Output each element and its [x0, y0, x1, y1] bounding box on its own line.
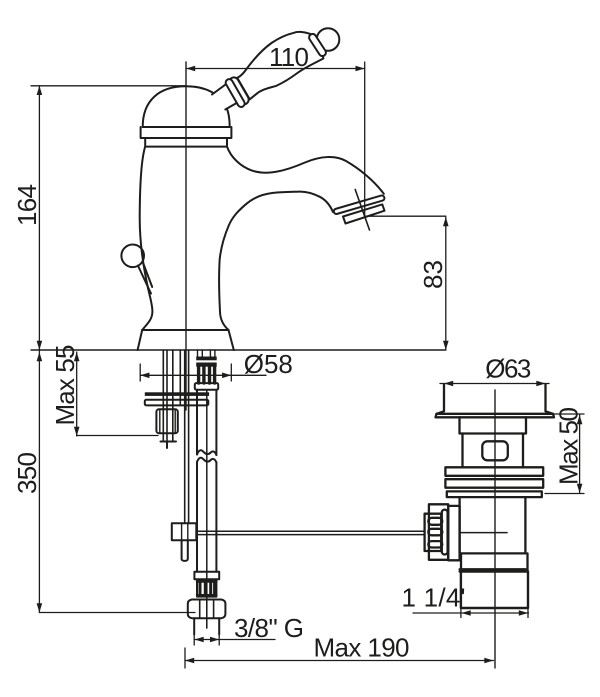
arrow Max55 up	[74, 352, 80, 361]
drain upper body	[463, 434, 524, 468]
ring 1	[445, 467, 543, 476]
dim 83 vertical	[445, 217, 447, 350]
dome cap	[143, 86, 230, 127]
drain pull knob circle	[121, 245, 144, 268]
dim Max190 left extension	[184, 648, 186, 668]
dim 164 top extension	[31, 85, 186, 87]
arrow O63 right	[536, 381, 545, 387]
arrow 350 down	[37, 603, 43, 612]
handle ball knob	[317, 28, 340, 51]
dome plinth	[141, 127, 232, 138]
dim 3/8 line	[194, 639, 275, 641]
thread tail hatch	[199, 367, 215, 383]
drain neck	[460, 417, 527, 433]
countertop plane line	[31, 349, 446, 351]
base skirt shoulder	[142, 329, 228, 331]
dim 3/8 extensions	[193, 630, 195, 645]
flex hose upper	[197, 390, 216, 455]
handle tip ridge	[308, 33, 327, 58]
washer thick bar	[145, 392, 209, 396]
arrow 164 down	[37, 341, 43, 350]
aerator ring band (capsule)	[333, 195, 385, 215]
thread collar	[195, 383, 218, 390]
svg-text:Max 50: Max 50	[553, 407, 583, 485]
arrow O58 right	[222, 373, 231, 379]
arrow 83 down	[443, 341, 449, 350]
faucet shank centerline lower	[206, 599, 208, 628]
dim 164/350 vertical line	[38, 86, 40, 613]
pop-up rod through nut to clamp	[182, 523, 188, 540]
dome base line	[143, 126, 230, 128]
knurl capsule tall	[442, 510, 448, 555]
arrow Max55 down	[74, 427, 80, 436]
dim 1 1/4 line	[413, 612, 529, 614]
arrow 164 up	[37, 86, 43, 95]
arrow Max50 up	[577, 415, 583, 424]
drain flange lip	[436, 414, 555, 418]
aerator tip slab	[343, 204, 385, 223]
hex nut 3/8	[188, 600, 226, 619]
arrow O58 left	[140, 373, 149, 379]
knurled nut plate	[448, 506, 459, 560]
body right contour + spout underside (one sweep)	[219, 192, 333, 330]
dim O63 line	[440, 383, 549, 385]
thread tail top lines	[198, 350, 215, 359]
arrow 110 right	[356, 66, 365, 72]
hose ribbed section	[197, 580, 216, 597]
hose break zigzag	[197, 450, 216, 462]
svg-text:Ø63: Ø63	[485, 354, 531, 384]
dim Max190 line	[185, 660, 494, 662]
dim Max55 vertical	[76, 352, 78, 436]
flex hose lower	[197, 462, 216, 572]
svg-text:83: 83	[418, 260, 448, 289]
spout outlet horizontal to 83	[365, 215, 446, 217]
arrow 1 1/4 right	[519, 610, 528, 616]
overflow window	[482, 441, 508, 460]
3/8 tube below nut	[194, 618, 219, 634]
centerline faucet	[185, 62, 187, 410]
drain mid joint	[460, 553, 528, 571]
dim O58 extensions	[139, 364, 141, 381]
svg-text:Max 55: Max 55	[50, 345, 80, 426]
svg-text:Ø58: Ø58	[244, 349, 293, 379]
base skirt sides	[138, 330, 234, 350]
rod tip below clamp	[182, 540, 188, 561]
thread tail dark bands	[196, 357, 217, 361]
left threaded stud	[163, 350, 173, 442]
knurl bumps	[428, 518, 442, 525]
arrow O63 left	[444, 381, 453, 387]
drain flange sides	[437, 384, 554, 414]
arrow 83 up	[443, 217, 449, 226]
svg-text:3/8" G: 3/8" G	[234, 613, 304, 643]
arrow 350 up	[37, 352, 43, 361]
dim 110 right extension vertical	[364, 62, 366, 216]
dim 1 1/4 extensions	[460, 608, 462, 618]
mounting nut	[156, 409, 177, 433]
handle stem	[212, 81, 245, 110]
dim Max50 bottom extension	[545, 493, 584, 495]
pop-up rod upper	[180, 350, 188, 523]
arrow Max190 left	[185, 658, 194, 664]
spout axis tick	[355, 190, 369, 231]
drain pull stem	[138, 263, 152, 294]
spout upper contour	[227, 147, 384, 194]
ring 2	[445, 479, 543, 488]
dim 350 bottom extension	[39, 612, 195, 614]
svg-text:110: 110	[269, 42, 309, 72]
arrow Max190 right	[484, 658, 493, 664]
clamp block	[172, 523, 197, 540]
arrow 1 1/4 left	[462, 610, 471, 616]
handle collar rings	[224, 75, 250, 108]
drain bottom tube	[460, 572, 528, 609]
dim Max50 vertical	[579, 415, 581, 493]
dim 110 line	[186, 68, 365, 70]
washer plate	[145, 400, 209, 406]
handle grip	[237, 32, 323, 99]
dim Max55 bottom extension	[77, 435, 158, 437]
drain centerline	[494, 390, 496, 668]
rod line inside tube	[460, 532, 507, 534]
hose end collar	[194, 572, 219, 580]
svg-text:164: 164	[12, 184, 42, 226]
knurled nut inner	[425, 514, 442, 551]
drain lower tube	[460, 497, 526, 553]
arrow 3/8 left	[195, 637, 204, 643]
body left contour	[140, 147, 153, 330]
horizontal link rod	[196, 531, 423, 534]
knurled nut body	[429, 504, 448, 560]
ring 3	[447, 491, 542, 497]
hose mid line	[206, 390, 208, 628]
neck band	[145, 138, 227, 147]
arrow Max50 down	[577, 484, 583, 493]
stud bottom cap	[161, 442, 177, 449]
svg-text:1 1/4': 1 1/4'	[402, 583, 466, 613]
svg-text:350: 350	[12, 452, 42, 494]
dim O58 line	[140, 374, 266, 376]
svg-text:Max 190: Max 190	[314, 632, 410, 662]
dim Max50 top extension	[552, 413, 584, 415]
nut inner lines	[160, 409, 175, 433]
arrow 3/8 right	[210, 637, 219, 643]
arrow 110 left	[186, 66, 195, 72]
